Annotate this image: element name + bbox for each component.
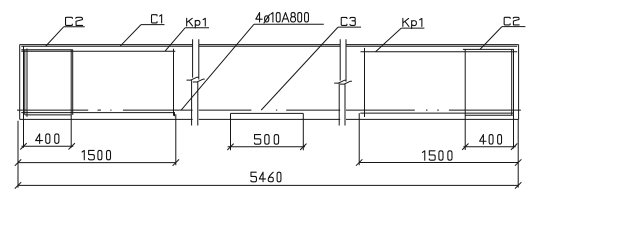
bar C2 right zone right verticals <box>511 49 513 115</box>
stirrup zone C3 left vertical <box>230 113 232 150</box>
label C3 underline <box>338 26 361 28</box>
label C1 leader <box>120 25 141 47</box>
label 4d10A800 leader <box>181 24 254 110</box>
label Kp1 first underline <box>185 27 209 29</box>
dimension 400 right ticks <box>462 144 468 150</box>
dimension 400 right line <box>463 146 515 148</box>
bar C1 left top bar <box>21 50 175 52</box>
dimension 500 ticks <box>227 144 233 150</box>
dimension 1500 right line <box>359 162 518 164</box>
extension line right end <box>517 119 519 187</box>
bar C1 left bottom bar with end hook <box>21 113 174 117</box>
break line 2 right <box>340 39 352 125</box>
label C3 text <box>341 17 355 25</box>
label Kp1 first text <box>187 18 206 28</box>
bar C2 right zone left vertical <box>464 49 466 150</box>
bottom bars 4d10 middle segment with dash-dot <box>199 109 252 111</box>
bar C1 right bottom bar <box>360 112 514 114</box>
bar C2 left zone top bar <box>21 49 73 51</box>
break line 1 left <box>187 39 199 125</box>
dimension 400 left ticks <box>20 143 26 149</box>
dimension 400 right text <box>480 135 502 145</box>
label C2 left text <box>66 17 83 25</box>
bottom bars 4d10 left segment with dash-dot <box>17 109 88 111</box>
label C2 left leader <box>46 27 64 47</box>
dimension 500 text <box>254 135 278 145</box>
stirrup zone C3 line <box>231 112 304 114</box>
dimension 400 left text <box>36 134 59 144</box>
dimension 5460 text <box>251 172 281 182</box>
beam bottom edge left segment <box>20 118 193 120</box>
label Kp1 first leader <box>165 28 185 51</box>
extension line left end <box>17 121 19 188</box>
beam top edge right segment <box>346 44 519 46</box>
label C2 right leader <box>480 27 502 50</box>
bar C2 left zone right verticals <box>70 50 72 148</box>
dimension 1500 left ticks <box>15 159 21 165</box>
bar C1 left end vertical <box>26 49 28 117</box>
stirrup zone C3 right vertical <box>302 113 304 150</box>
break line 2 left <box>334 39 346 125</box>
dimension 1500 right ticks <box>356 159 362 165</box>
frame Kp1 top bar left segment <box>21 45 192 47</box>
dimension 5460 line <box>18 184 518 186</box>
break line 1 right <box>193 39 205 125</box>
label Kp1 second leader <box>376 28 402 52</box>
frame Kp1 top bar right segment <box>346 45 517 47</box>
dimension 5460 ticks <box>15 182 21 188</box>
bottom bars 4d10 right segment with dash-dot <box>346 109 415 111</box>
beam bottom edge middle segment <box>199 118 340 120</box>
label C2 left underline <box>64 26 85 28</box>
bar C2 right zone bottom bar <box>465 114 513 116</box>
label 4d10A800 underline <box>254 23 324 25</box>
label C2 right underline <box>502 26 526 28</box>
label 4d10A800 text <box>256 13 309 23</box>
dimension 1500 right text <box>422 151 452 160</box>
dimension 500 line <box>228 146 305 148</box>
beam top edge middle segment <box>199 44 340 46</box>
dimension 1500 left line <box>18 162 176 164</box>
extension line right 1500 left <box>358 113 360 165</box>
bar C1 left right end vertical <box>173 49 175 116</box>
label C1 underline <box>141 24 165 26</box>
label C3 leader <box>261 27 338 110</box>
beam left edge <box>19 45 21 120</box>
bar C2 right zone top bar <box>463 48 514 50</box>
frame Kp1 top bar middle segment <box>199 45 340 47</box>
bar C1 right left end vertical <box>364 48 366 117</box>
bar C1 right top bar <box>361 51 518 53</box>
extension line left 1500 right <box>175 114 177 165</box>
label C1 text <box>152 15 162 23</box>
beam right edge <box>518 45 520 120</box>
label Kp1 second text <box>403 18 422 28</box>
label Kp1 second underline <box>401 27 424 29</box>
label C2 right text <box>504 17 519 25</box>
dimension 1500 left text <box>82 150 111 159</box>
dimension 400 left line <box>22 145 74 147</box>
bar C2 left zone bottom bar <box>25 114 71 116</box>
bar C2 left zone left verticals <box>23 46 25 147</box>
beam top edge left segment <box>20 44 193 46</box>
beam bottom edge right segment <box>346 118 519 120</box>
